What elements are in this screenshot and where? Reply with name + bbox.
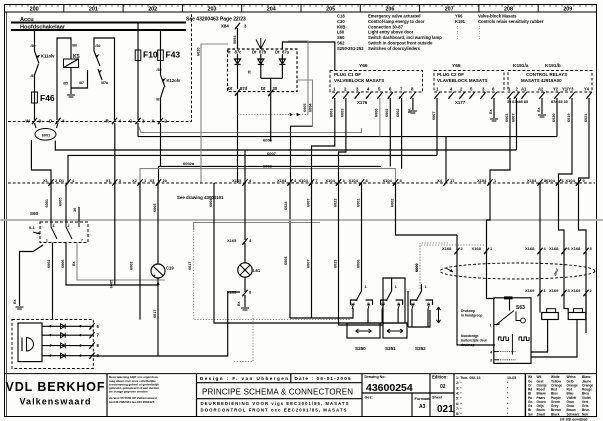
svg-text:Druknop: Druknop [461,309,475,313]
svg-text:in handgreep: in handgreep [461,314,482,318]
svg-text:Noir: Noir [582,412,589,416]
svg-text:G: G [129,119,133,124]
svg-text:Br.: Br. [72,261,76,266]
terminal X2 pin 1 [132,178,147,186]
plug C1 pin 1 [332,87,337,99]
svg-text:6023: 6023 [334,260,338,268]
svg-text:8: *: 8: * [456,412,462,416]
resistor R2 [568,313,586,320]
S63 pins 4 and 3 [494,351,498,353]
svg-text:Drawing No:: Drawing No: [365,375,386,379]
S250 arrow box [347,323,380,338]
colour table [524,374,526,417]
svg-text:6021: 6021 [584,114,588,122]
svg-text:Y66: Y66 [359,63,368,69]
svg-text:200: 200 [30,7,39,13]
svg-text:6002: 6002 [385,109,389,117]
svg-text:X104: X104 [566,178,576,183]
svg-text:Connection 30-87: Connection 30-87 [368,24,404,29]
svg-text:S62: S62 [337,41,345,46]
fuse F43 [161,30,165,120]
gray wire 6020 [201,44,228,183]
svg-text:6002: 6002 [130,262,134,270]
svg-text:87a 85 30: 87a 85 30 [551,100,568,104]
svg-text:Y4: Y4 [584,87,590,92]
relay box pin Y1/Y3 [562,87,575,99]
switch S63 box [494,298,531,364]
svg-text:6017: 6017 [188,262,192,270]
svg-text:See drawing 43000101: See drawing 43000101 [177,195,224,200]
wire X165-4 from 6007 [244,150,246,183]
svg-text:A2: A2 [538,87,544,92]
svg-text:02: 02 [440,384,446,390]
wire 6002 bend down right [457,235,495,345]
svg-text:Y2: Y2 [553,87,559,92]
plug C1 pin 6 [388,87,393,99]
svg-text:X104: X104 [477,178,487,183]
svg-text:6005: 6005 [110,280,114,288]
svg-text:Sw: Sw [528,412,533,416]
svg-text:L60: L60 [337,30,345,35]
diode row pin 9 [42,355,93,357]
svg-text:/85: /85 [63,82,68,86]
terminal W9 [32,118,37,124]
svg-text:X3: X3 [150,178,156,183]
svg-text:Light entry above door: Light entry above door [368,30,414,35]
wire X4-17 from 6000 [445,137,447,183]
svg-text:X177: X177 [455,100,466,105]
svg-text:DEURBEDIENING VOOR vigs EEC200: DEURBEDIENING VOOR vigs EEC2001/85, MASA… [201,401,349,406]
ruler band [5,11,597,13]
relay pin wires [490,98,510,183]
svg-text:8: 8 [53,224,55,228]
svg-text:7: 7 [81,239,83,243]
svg-text:1: 1 [46,239,48,243]
svg-text:30: 30 [73,208,77,212]
svg-text:ter inzage gegeven worden: ter inzage gegeven worden [109,390,148,394]
terminal X168 pin 6 [549,246,571,254]
vertical double arrow [437,307,441,323]
connector diode box [12,320,93,369]
terminal X169 pin 3 [549,288,571,296]
wire 6007 [55,141,516,151]
svg-text:6006: 6006 [61,260,65,268]
wire 6004 long [214,183,407,323]
svg-text:207: 207 [445,7,454,13]
svg-text:Switches of doorcylinders: Switches of doorcylinders [368,46,421,51]
svg-text:/87: /87 [31,74,36,78]
wire 6007 to S250 [311,183,313,318]
terminal X104 pin 6 [546,178,565,186]
relay box pin 1 [507,87,512,99]
relay box pin Y4 [584,87,592,99]
contact branch 87 [71,70,88,88]
svg-text:Br.: Br. [13,299,17,304]
disclaimer text [196,374,198,417]
S63 top junction [504,296,513,299]
svg-text:D1: D1 [59,178,65,183]
plug C1 pin 4 [366,87,371,99]
svg-text:021: 021 [437,404,454,415]
svg-text::: : [479,35,480,40]
svg-text:6002: 6002 [396,109,400,117]
plug C1 pin 7 [399,87,404,99]
svg-text:6007: 6007 [432,112,436,120]
switch S250 [361,290,363,291]
svg-text:6023: 6023 [334,199,338,207]
wire D3 top to plug C1 pin1 [282,42,334,71]
resistor R1 feed [539,295,541,313]
svg-text::: : [479,30,480,35]
svg-text:X168: X168 [472,246,482,251]
svg-text:K11olv: K11olv [41,54,55,59]
svg-text:S250-251-252: S250-251-252 [337,46,364,51]
svg-text:201: 201 [89,7,98,13]
svg-text:Gez:: Gez: [365,396,373,400]
svg-text:X168: X168 [571,246,581,251]
svg-text::: : [479,24,480,29]
svg-text:/30: /30 [31,44,36,48]
svg-text:202: 202 [148,7,157,13]
bottom left connector wire [93,292,240,356]
diode module It/Dt [228,49,298,92]
svg-text:A1: A1 [521,87,527,92]
design cells [290,374,292,383]
svg-text:F10: F10 [143,50,158,60]
svg-text:/87: /87 [79,81,84,85]
relay K5 coil loop [57,38,71,120]
S63 contact 1 [494,311,514,326]
svg-text:X1: X1 [106,178,112,183]
fuse F46 [32,92,38,103]
svg-text:1: Tsm. 052-13: 1: Tsm. 052-13 [456,376,481,380]
svg-text:87b: 87b [259,50,267,55]
svg-text:S252: S252 [415,346,426,351]
svg-text:K12olv: K12olv [167,78,181,83]
ground under K5 [67,95,75,97]
svg-text:X169: X169 [549,288,559,293]
svg-text:205: 205 [326,7,335,13]
svg-text:PLUG C2 OF: PLUG C2 OF [437,72,464,77]
svg-text:Y66: Y66 [452,63,461,69]
svg-text:6004: 6004 [284,256,288,265]
X168 feed wires [487,183,496,299]
fork symbol above D2 [256,38,266,49]
svg-text:X176: X176 [357,100,368,105]
svg-text:K6B: K6B [337,24,345,29]
relay box pin A2 [538,87,545,99]
svg-text:Dt: Dt [228,86,233,91]
plug C1 pin 8 [410,87,415,99]
svg-text:1: 1 [490,324,492,328]
plug C1 pin wires [312,98,335,183]
svg-text:S63: S63 [516,305,525,311]
terminal X1 pin 3 [106,178,122,186]
wire X169-2 to R2 [585,295,587,319]
svg-text:X168: X168 [525,246,535,251]
svg-text:6007: 6007 [307,199,311,207]
svg-text:4: 4 [119,119,122,124]
svg-text:Schwarz: Schwarz [567,412,580,416]
svg-text:87a: 87a [282,50,290,55]
component C19 column [157,183,159,264]
terminal X169 pin 2 [571,288,593,296]
gray fold line [0,219,603,221]
svg-text:3: *: 3: * [456,386,462,390]
relay box pin A1 [521,87,527,99]
svg-text:Y1/Y3: Y1/Y3 [562,87,574,92]
terminal X168 pin 1 [472,246,494,254]
svg-text:6000: 6000 [375,109,379,117]
svg-text:S60: S60 [337,35,345,40]
svg-text:Valve-block Masats: Valve-block Masats [478,14,517,19]
terminal G3 [135,118,140,124]
svg-text:5093: 5093 [233,36,237,44]
svg-text:10-05: 10-05 [507,376,516,380]
svg-text:2: 2 [165,119,168,124]
switch S60 [50,183,52,222]
svg-text:X168: X168 [549,246,559,251]
wire to ground left [20,245,44,306]
svg-text:Dt: Dt [261,86,266,91]
svg-text:/87: /87 [156,98,161,102]
svg-text:L61: L61 [253,268,261,273]
svg-text:Dt: Dt [252,50,257,55]
svg-text:buitenzijde deur: buitenzijde deur [461,339,488,343]
svg-text:Br.: Br. [237,301,241,306]
svg-text:6020: 6020 [197,48,201,56]
svg-text:X104: X104 [277,178,287,183]
svg-text:5: *: 5: * [456,397,462,401]
gray dotted 6000 to S252 [420,245,484,289]
wire 6001 to S250 [361,183,363,291]
terminal X168 pin 5 [571,246,593,254]
svg-text:Br.: Br. [537,107,541,112]
svg-text:Formaat: Formaat [415,397,431,401]
svg-text:A3: A3 [419,404,426,410]
svg-text:6017: 6017 [153,310,157,318]
fuse F10 [137,23,139,121]
svg-text:6005: 6005 [303,104,307,112]
svg-text:Dt: Dt [275,50,280,55]
svg-text:/86: /86 [72,44,77,48]
svg-text:X104: X104 [546,178,556,183]
gray dotted 6005 branch left [238,114,309,116]
svg-text:6020: 6020 [552,114,556,122]
gray 6017 wire [194,228,351,320]
edition / sheet [429,374,431,417]
diode D3 [281,54,283,78]
diode D2 [260,54,262,78]
plug C2 pin 3 [480,87,485,99]
diode D1 [237,54,239,89]
wire switch bus y318 [290,308,353,318]
svg-text::: : [457,30,458,35]
svg-text:S250: S250 [355,346,366,351]
S251 enclosure [383,278,405,323]
svg-text:W: W [26,119,31,124]
wire 6002 gray [140,169,396,183]
diode row pin 8 [42,345,93,347]
svg-text:203: 203 [208,7,217,13]
wire X to 6002a [159,123,161,166]
terminal X168 pin 4 [525,246,547,254]
svg-text:6019: 6019 [567,114,571,122]
revision list [453,374,455,417]
svg-text:204: 204 [267,7,276,13]
svg-text:MASATS 42919A00: MASATS 42919A00 [521,78,562,83]
dashed ellipse [440,263,595,279]
svg-text:X165: X165 [227,290,237,295]
svg-text:X169: X169 [571,288,581,293]
svg-text:VLAVEBLOCK MASATS: VLAVEBLOCK MASATS [437,78,488,83]
svg-text:X104: X104 [326,178,336,183]
svg-text:Controls relais sensitivity ru: Controls relais sensitivity rubber [478,19,544,24]
svg-text:X169: X169 [525,288,535,293]
svg-text:6007: 6007 [307,260,311,268]
switch S251 [391,290,393,291]
svg-text:2: 2 [68,224,70,228]
svg-text:6: *: 6: * [456,402,462,406]
wire to D1 [68,155,437,183]
svg-text:DOORCONTROL FRONT occ EEC2001/: DOORCONTROL FRONT occ EEC2001/85, MASATS [201,408,347,413]
svg-text:6002: 6002 [391,199,395,207]
svg-text:Switch in doorpost front outsi: Switch in doorpost front outside [368,41,433,46]
wire W to X1 [31,140,51,183]
svg-text:/30: /30 [96,44,101,48]
wire G to 6000 [137,123,139,137]
svg-text:X104: X104 [527,178,537,183]
terminal X104 pin 8 [349,178,369,186]
svg-text:C30: C30 [337,19,345,24]
svg-text:43600254: 43600254 [366,382,413,394]
svg-text:Br.: Br. [489,109,493,114]
dashed boundary line [8,12,192,122]
wire 6004 bend to X104-4 [291,126,313,182]
svg-text:6002: 6002 [47,260,51,268]
svg-text:87c: 87c [235,50,243,55]
VDL Berkhof logo [106,374,108,417]
terminal X1 pin 2 [43,178,58,186]
svg-text:6004: 6004 [209,198,213,207]
plug C2 pin 5 [469,87,474,99]
svg-text:6002a: 6002a [183,161,195,166]
svg-text:PRINCIPE SCHEMA & CONNECTOREN: PRINCIPE SCHEMA & CONNECTOREN [202,388,353,397]
plug C2 pin 4 [448,87,453,99]
wire 6000 [138,136,557,138]
terminal X4 pin 17 [437,178,455,186]
gray wires 6005/6004 right of box [288,41,308,115]
svg-text:X4: X4 [437,178,443,183]
svg-text:0-1: 0-1 [29,225,36,230]
svg-text:K191: K191 [455,19,466,24]
svg-text:Control-lamp energy to door: Control-lamp energy to door [368,19,425,24]
terminal R4 [112,118,117,124]
wire 6005 loop [114,183,116,285]
svg-text:4: *: 4: * [456,391,462,395]
title block [5,373,597,375]
svg-text:/87a: /87a [101,81,109,85]
gray dotted 6000 to S252 [420,243,448,289]
svg-text:6003: 6003 [330,109,334,117]
svg-text:6005: 6005 [59,198,63,206]
svg-text:CONTROL RELAYS: CONTROL RELAYS [526,72,567,77]
wire 6024/6004 down to switch bus [289,183,291,318]
svg-text:7: *: 7: * [456,407,462,411]
gray wire from G [139,127,362,133]
svg-text:6004: 6004 [309,103,313,112]
terminal X169 pin 1 [525,288,547,296]
svg-text::: : [457,35,458,40]
diode row pin 7 [42,334,93,336]
wire 6002a [159,166,382,183]
svg-text:6003: 6003 [505,114,509,122]
svg-text:Black: Black [551,412,560,416]
wire R to X1-3 [114,123,116,183]
relay coil K5 [64,59,79,68]
svg-text:2: *: 2: * [456,381,462,385]
plug C2 pin 1 [434,87,439,99]
svg-text:K191/b: K191/b [545,63,561,69]
svg-text:6001: 6001 [45,199,49,207]
svg-text:PLUG C1 OF: PLUG C1 OF [334,72,361,77]
svg-text:C18: C18 [337,14,345,19]
svg-text::: : [457,24,458,29]
svg-text:druknop: druknop [461,343,475,347]
terminal X104 pin 5 [383,178,403,186]
K5 contact loop to R [94,38,115,120]
plug C2 pin 2 [459,87,464,99]
svg-text:Valkenswaard: Valkenswaard [20,397,91,407]
terminal D1 pin 4 [59,178,75,186]
svg-text:6001: 6001 [357,199,361,207]
wire from bus to W9 [35,30,39,120]
svg-text:4: 4 [62,119,65,124]
svg-text:6000: 6000 [415,264,419,272]
relay box pin Y2 [553,87,560,99]
terminal X168 pin 2 [442,246,464,254]
wire from Dt30 down to 6000 [270,93,272,142]
svg-text:F46: F46 [40,93,55,103]
terminal row X104 [8,182,595,184]
svg-text:20: 20 [163,178,168,183]
svg-text:Uit stijl gewijzigd: Uit stijl gewijzigd [560,418,588,421]
svg-text:S251: S251 [385,346,396,351]
svg-text:6006: 6006 [357,260,361,268]
terminal X2 [158,118,163,124]
S252 enclosure [408,291,430,327]
plug C1 pin 2 [343,87,348,99]
svg-text:6024: 6024 [284,201,288,210]
svg-text:Y66: Y66 [455,14,463,19]
svg-text:Date : 06-01-2005: Date : 06-01-2005 [295,376,351,381]
terminal X104 pin 4 [277,178,297,186]
relay box pin 2 [514,87,519,99]
plug C2 pin 6 [491,87,496,99]
svg-text:Switch dashboard, incl warning: Switch dashboard, incl warning lamp [368,35,442,40]
terminal D4 [55,118,60,124]
switch S252 [421,290,423,291]
svg-text:Zwart: Zwart [537,412,546,416]
plug C2 pin wires [436,98,438,155]
svg-text:tel.040 2082424 fax.040 208242: tel.040 2082424 fax.040 2082425 [109,400,155,404]
resistor bottom wires [531,320,548,353]
svg-text:Br.: Br. [408,108,412,113]
S251 arrow box [383,323,407,338]
terminal X104 pin 3 [326,178,346,186]
resistor R2 feed [564,295,568,313]
svg-text:X2: X2 [132,178,138,183]
